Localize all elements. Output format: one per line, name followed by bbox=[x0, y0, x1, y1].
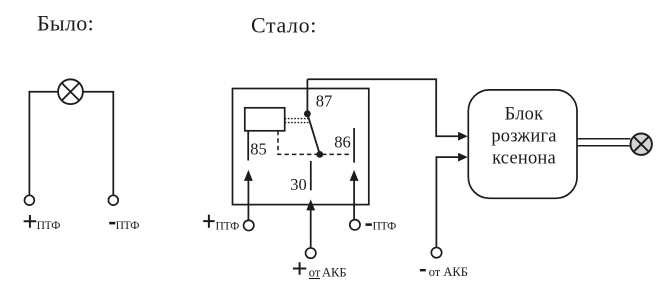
arrow from +ПТФ into relay (pin 85) bbox=[244, 170, 253, 220]
wire pin 87 to block bbox=[307, 79, 459, 136]
label - от АКБ bbox=[420, 265, 468, 279]
pin 86 lead bbox=[353, 128, 355, 163]
xenon ignition block U1 bbox=[468, 90, 577, 198]
svg-text:от АКБ: от АКБ bbox=[429, 265, 468, 279]
terminal +ПТФ (было) bbox=[25, 195, 35, 205]
svg-text:ПТФ: ПТФ bbox=[216, 219, 240, 232]
relay K1 body bbox=[233, 89, 369, 205]
svg-text:Блок: Блок bbox=[505, 105, 544, 125]
svg-text:87: 87 bbox=[316, 92, 333, 111]
svg-text:розжига: розжига bbox=[491, 127, 556, 147]
pin 87 wire bbox=[306, 79, 308, 114]
svg-text:30: 30 bbox=[290, 175, 307, 194]
wire -от АКБ to block bbox=[436, 157, 459, 247]
svg-text:ПТФ: ПТФ bbox=[373, 219, 397, 232]
arrow from -ПТФ into relay (pin 86) bbox=[350, 170, 359, 219]
label Блок розжига ксенона bbox=[491, 105, 556, 169]
pin 30 lead bbox=[310, 161, 312, 190]
arrowhead into block (top) bbox=[458, 132, 468, 141]
svg-text:Было:: Было: bbox=[37, 11, 94, 36]
svg-text:ксенона: ксенона bbox=[492, 149, 556, 169]
arrow from +АКБ to pin 30 bbox=[306, 199, 315, 247]
lamp HL1 (было) bbox=[58, 79, 83, 104]
label -ПТФ (было) bbox=[109, 219, 139, 232]
arrowhead into block (bottom) bbox=[458, 153, 468, 162]
label + от АКБ bbox=[293, 262, 347, 279]
terminal -от АКБ bbox=[431, 247, 441, 257]
coil lead pin 85 bbox=[247, 131, 249, 161]
svg-text:Стало:: Стало: bbox=[251, 13, 317, 38]
svg-text:ПТФ: ПТФ bbox=[116, 219, 140, 232]
svg-text:от: от bbox=[309, 266, 321, 280]
terminal -ПТФ (было) bbox=[108, 195, 118, 205]
terminal -ПТФ (стало) bbox=[350, 220, 360, 230]
relay coil bbox=[245, 108, 285, 131]
terminal +от АКБ bbox=[306, 248, 316, 258]
terminal +ПТФ (стало) bbox=[244, 220, 254, 230]
lamp HL2 ксенон bbox=[631, 134, 652, 155]
label -ПТФ (стало) bbox=[366, 219, 397, 232]
coil lead to pin 86 (dashed) bbox=[278, 131, 352, 155]
label +ПТФ (стало) bbox=[203, 215, 239, 233]
svg-text:ПТФ: ПТФ bbox=[37, 219, 61, 232]
title Было bbox=[37, 11, 94, 36]
contact 87 junction dot bbox=[304, 110, 311, 117]
title Стало bbox=[251, 13, 317, 38]
svg-text:АКБ: АКБ bbox=[322, 266, 347, 280]
label +ПТФ (было) bbox=[24, 215, 61, 232]
wire right of lamp bbox=[83, 92, 114, 195]
cable to xenon lamp (double line) bbox=[577, 139, 630, 146]
mechanical link (dotted) bbox=[285, 119, 309, 123]
svg-text:86: 86 bbox=[334, 132, 351, 151]
common junction dot bbox=[316, 151, 323, 158]
switch armature bbox=[307, 114, 319, 155]
svg-text:85: 85 bbox=[250, 139, 266, 158]
wire left of lamp bbox=[29, 92, 58, 195]
